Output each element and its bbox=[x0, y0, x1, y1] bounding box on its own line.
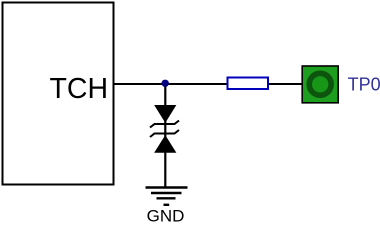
svg-text:TP0: TP0 bbox=[348, 74, 380, 94]
ground symbol bbox=[146, 188, 188, 205]
svg-text:GND: GND bbox=[147, 207, 185, 224]
resistor R1 bbox=[228, 78, 269, 90]
TVS diode D1 top triangle (cathode down) bbox=[156, 106, 176, 122]
svg-text:TCH: TCH bbox=[50, 73, 109, 105]
test point TP0 ring bbox=[306, 71, 334, 99]
wire: junction down to diode and ground bbox=[164, 84, 166, 188]
TVS diode D1 bottom triangle (cathode up) bbox=[156, 137, 176, 153]
wire: TCH pin to test point TP0 bbox=[113, 83, 303, 85]
test point TP0 pad bbox=[302, 66, 338, 103]
node junction dot bbox=[162, 80, 169, 87]
TVS diode D1 lower zener bar bbox=[150, 130, 179, 137]
IC block U1 (TCH) bbox=[3, 3, 114, 185]
TVS diode D1 upper zener bar bbox=[150, 121, 179, 128]
